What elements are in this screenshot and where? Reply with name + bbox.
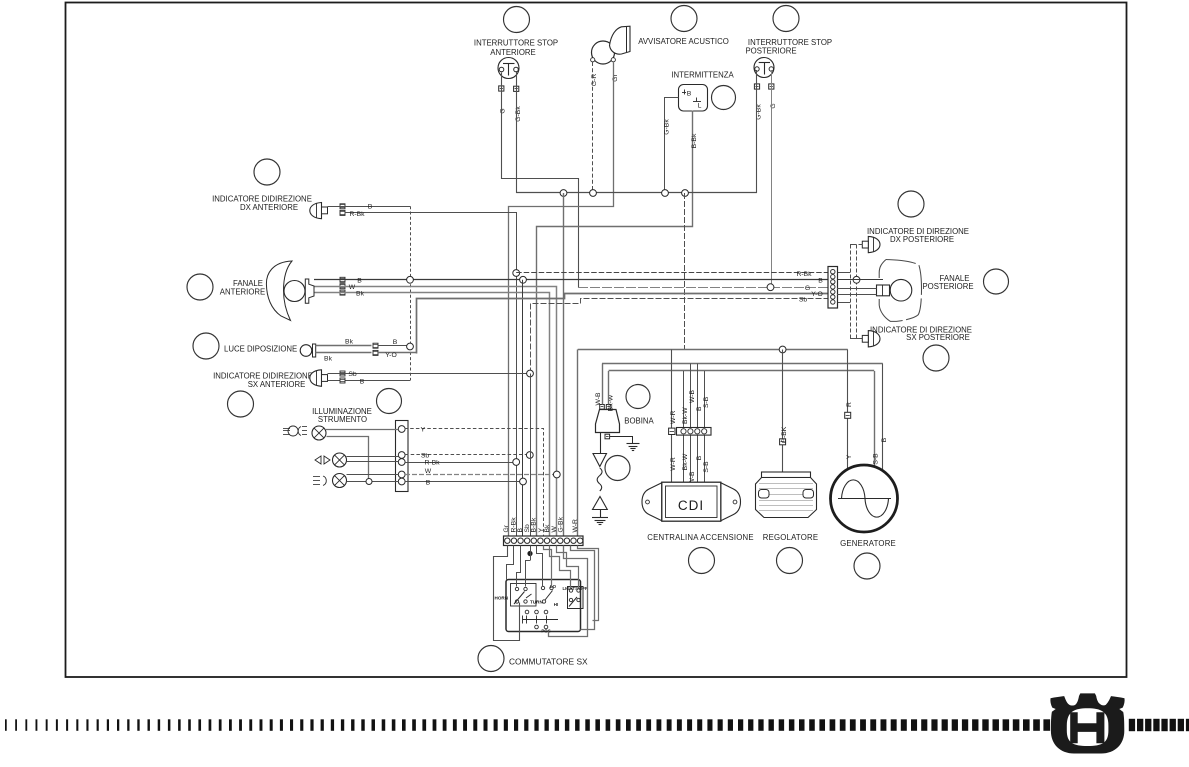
callout balloon (flasher) [712, 86, 736, 110]
terminal hatch W [340, 284, 345, 289]
svg-text:R-Bk: R-Bk [349, 211, 365, 218]
svg-text:G-BK: G-BK [781, 426, 788, 443]
junction dot below connector [527, 551, 532, 556]
svg-text:S-B: S-B [873, 453, 880, 465]
svg-text:B-Bk: B-Bk [691, 133, 698, 148]
junction Sb [527, 370, 534, 377]
wire to DX rear indicator [851, 245, 863, 339]
relay flasher unit box [679, 85, 708, 112]
svg-text:INTERRUTTORE STOP: INTERRUTTORE STOP [474, 39, 558, 48]
svg-text:B: B [517, 528, 524, 533]
ground symbol spark plug [592, 517, 608, 519]
terminal square W-R [669, 428, 675, 434]
tick strip left of logo [5, 719, 7, 731]
wire G-Bk from rear stop switch [756, 70, 758, 193]
indicator lamp 2 [333, 453, 347, 467]
callout balloon (CDI unit) [689, 548, 715, 574]
wire B from DX indicator [328, 206, 411, 208]
junction B col [520, 478, 527, 485]
wire to SX rear indicator [850, 338, 862, 340]
callout balloon (rear LH indicator) [923, 345, 949, 371]
callout balloon (front stop switch) [504, 7, 530, 33]
svg-text:POS: POS [541, 629, 550, 634]
wire Sb trunk [531, 299, 829, 374]
svg-text:Bk: Bk [356, 291, 365, 298]
callout balloon (coil) [626, 385, 650, 409]
rear right indicator symbol [868, 236, 880, 252]
svg-text:B: B [360, 378, 365, 385]
svg-text:R-Bk: R-Bk [424, 460, 440, 467]
wire W-R drop to connector [577, 350, 579, 537]
terminal hatch B [340, 204, 345, 209]
svg-text:B: B [368, 204, 373, 211]
position light symbol [300, 345, 312, 357]
junction G x rear stop G [767, 284, 774, 291]
callout balloon (front RH indicator) [254, 159, 280, 185]
svg-text:B-Bk: B-Bk [531, 517, 538, 532]
svg-text:B: B [426, 479, 431, 486]
left switch horn contact box [511, 584, 537, 607]
tail lamp housing [886, 260, 922, 322]
svg-text:REGOLATORE: REGOLATORE [763, 533, 818, 542]
wire Bk-W drop to CDI [683, 371, 685, 483]
callout balloon (rear stop switch) [773, 6, 799, 32]
wire lamp1 ground [327, 437, 369, 482]
wire Sb drop to connector [530, 374, 532, 537]
svg-text:G-Bk: G-Bk [558, 516, 565, 532]
lights switch box [568, 587, 584, 609]
svg-text:G-Bk: G-Bk [664, 119, 671, 135]
spark plug chain [600, 433, 602, 454]
svg-text:SX ANTERIORE: SX ANTERIORE [248, 380, 306, 389]
svg-text:BOBINA: BOBINA [624, 417, 654, 426]
junction Sb col [526, 452, 533, 459]
wire R to generator [847, 350, 849, 470]
turn icon [315, 456, 330, 464]
svg-text:W-B: W-B [689, 389, 696, 403]
junction W col [553, 471, 560, 478]
svg-text:W-B: W-B [595, 392, 602, 406]
svg-text:HORN: HORN [495, 596, 509, 601]
callout balloon (instrument lighting) [377, 389, 402, 414]
Husqvarna logo [1050, 693, 1124, 753]
svg-text:CENTRALINA ACCENSIONE: CENTRALINA ACCENSIONE [647, 533, 753, 542]
callout balloon (spark plug) [605, 456, 630, 481]
wire W from instrument connector [405, 474, 557, 476]
wire G trunk to rear [578, 287, 828, 289]
junction on G-Bk trunk [682, 190, 689, 197]
wire R-Bk connector to bus [837, 272, 850, 274]
svg-text:B: B [357, 277, 362, 284]
svg-text:Y-O: Y-O [811, 291, 822, 298]
svg-text:ANTERIORE: ANTERIORE [490, 48, 536, 57]
junction on G-Bk trunk [662, 190, 669, 197]
svg-text:R: R [846, 402, 853, 407]
horn symbol [592, 41, 615, 64]
wire lamp2 leads [347, 456, 399, 458]
svg-text:S-B: S-B [703, 461, 710, 473]
terminal hatch B [340, 277, 345, 282]
svg-text:B: B [696, 455, 703, 460]
svg-text:Y: Y [846, 454, 853, 459]
terminal square G-BK [780, 439, 786, 445]
wire B from position light [378, 345, 410, 347]
indicator lamp 1 [312, 426, 326, 440]
junction B-bus x luce [407, 343, 414, 350]
wire B bus vertical [410, 206, 412, 380]
svg-text:CDI: CDI [678, 498, 704, 513]
wire Sb connector to bus [837, 302, 850, 304]
junction B x B-bus [407, 276, 414, 283]
svg-text:G: G [500, 108, 507, 113]
junction R-Bk col [513, 459, 520, 466]
svg-text:INTERMITTENZA: INTERMITTENZA [671, 71, 734, 80]
svg-text:COMMUTATORE SX: COMMUTATORE SX [509, 657, 588, 667]
svg-text:B: B [687, 91, 692, 98]
coil bottom terminal [605, 434, 610, 439]
svg-text:DX ANTERIORE: DX ANTERIORE [240, 203, 298, 212]
wire Bk-W drop to coil [608, 371, 610, 405]
switch SW2 rear stop switch symbol [754, 58, 774, 78]
callout balloon (position light) [193, 333, 219, 359]
svg-text:W: W [425, 468, 432, 475]
svg-text:LUCE DIPOSIZIONE: LUCE DIPOSIZIONE [224, 345, 297, 354]
coil terminal W-B [600, 405, 605, 410]
svg-text:Sb: Sb [421, 453, 430, 460]
svg-text:Y-O: Y-O [385, 352, 396, 359]
switch SW1 front stop switch symbol [498, 58, 519, 79]
wire S-B to generator [874, 371, 876, 467]
wire Sb from SX indicator [328, 373, 531, 375]
svg-text:Bk: Bk [324, 355, 333, 362]
wire R-Bk trunk to rear [516, 272, 828, 274]
wire S-B drop to CDI [704, 371, 706, 483]
terminal hatch Sb [340, 371, 345, 376]
svg-text:Y: Y [421, 427, 426, 434]
wire Y-O to bulb [837, 294, 877, 296]
junction lamp ground [366, 479, 372, 485]
junction B drop [520, 276, 527, 283]
instrument connector strip [396, 421, 409, 492]
wire B-Bk from flasher [537, 111, 693, 537]
wire Gr from horn [509, 63, 614, 537]
callout balloon (regulator) [777, 548, 803, 574]
wire G-Bk drop to connector [563, 193, 565, 536]
wire Y-O from position light [378, 352, 417, 354]
svg-text:W: W [349, 284, 356, 291]
wire G from rear stop switch [771, 70, 773, 287]
junction on G-Bk trunk [590, 190, 597, 197]
wire riser to CDI line [684, 193, 686, 350]
wire B from instrument connector [405, 481, 523, 483]
wire Bk-W/S-B horizontal [609, 370, 875, 372]
coil ground wire [610, 437, 633, 444]
wire W-R drop to CDI [671, 350, 673, 484]
svg-text:HI: HI [554, 602, 558, 607]
rear left indicator symbol [868, 331, 880, 347]
terminal square on wire G-Bk rear [754, 84, 759, 89]
svg-text:GENERATORE: GENERATORE [840, 539, 896, 548]
svg-text:Sb: Sb [348, 371, 357, 378]
wire B from headlamp [314, 279, 828, 281]
callout balloon (horn) [671, 6, 697, 32]
svg-text:Bk-W: Bk-W [682, 453, 689, 470]
wire R-Bk from DX indicator [345, 213, 517, 537]
svg-text:Bk-W: Bk-W [682, 407, 689, 424]
svg-text:Bk: Bk [345, 339, 354, 346]
connector X1 main handlebar connector [504, 536, 584, 546]
callout balloon (front LH indicator) [228, 391, 254, 417]
callout balloon (headlamp) [187, 274, 213, 300]
svg-text:Gr: Gr [503, 524, 510, 532]
terminal square on wire G-Bk [514, 86, 519, 91]
connector pair position light [373, 343, 378, 348]
svg-text:Sb: Sb [799, 297, 808, 304]
wire B to generator [882, 364, 884, 471]
wire B connector to bulb [837, 279, 883, 281]
wire Y from instrument connector [405, 429, 544, 537]
callout balloon (tail lamp) [984, 269, 1009, 294]
terminal square on wire G rear [769, 84, 774, 89]
terminal hatch R-Bk [340, 210, 345, 215]
svg-text:LIGHTS OFF: LIGHTS OFF [563, 586, 588, 591]
svg-text:SX POSTERIORE: SX POSTERIORE [906, 333, 970, 342]
horn switch contacts [515, 587, 518, 590]
front left indicator symbol [310, 370, 322, 387]
wire G-R from horn [592, 62, 594, 193]
svg-text:B: B [393, 339, 398, 346]
svg-text:S-B: S-B [703, 396, 710, 408]
wire lamp1 to connector [326, 429, 398, 431]
wire Bk upper [316, 345, 372, 347]
terminal hatch Bk [340, 290, 345, 295]
svg-text:ANTERIORE: ANTERIORE [220, 288, 266, 297]
rear indicator bus second line [856, 245, 858, 339]
svg-text:G: G [805, 285, 810, 292]
callout balloon (rear RH indicator) [898, 191, 924, 217]
wire G from front stop switch [502, 73, 579, 288]
wire G-Bk trunk [516, 192, 757, 194]
wire G-Bk to regulator [782, 350, 784, 473]
connector X2 CDI connector [677, 428, 712, 436]
wire W-B drop to coil [602, 364, 604, 405]
coil terminal Bk-W [606, 405, 611, 410]
wire Bk from headlamp [315, 293, 550, 537]
terminal square R [845, 412, 851, 418]
svg-text:W-R: W-R [670, 410, 677, 424]
tail lamp bulb [890, 279, 912, 301]
svg-text:DX POSTERIORE: DX POSTERIORE [890, 235, 954, 244]
svg-text:W-R: W-R [572, 519, 579, 533]
wire R-Bk from instrument connector [405, 462, 516, 464]
junction rear B [853, 276, 860, 283]
wire G-Bk from front stop switch [516, 72, 518, 193]
svg-text:Bk: Bk [544, 524, 551, 533]
dimmer contacts [541, 586, 544, 589]
headlamp bulb [284, 281, 305, 302]
svg-text:L: L [698, 103, 702, 110]
svg-text:B: B [696, 406, 703, 411]
left switch outer box [506, 580, 581, 632]
wire Y-O trunk [417, 294, 829, 354]
svg-text:STRUMENTO: STRUMENTO [318, 415, 367, 424]
wire G-Bk from flasher [665, 98, 679, 193]
light selector mechanism [523, 619, 559, 621]
svg-text:B: B [881, 437, 888, 442]
wire W-R horizontal [578, 349, 848, 351]
wires connector to switch box [494, 546, 520, 641]
indicator lamp 3 [333, 474, 347, 488]
wire W from headlamp [315, 287, 557, 537]
coil body [596, 410, 620, 433]
terminal square on wire G [499, 86, 504, 91]
high beam icon [283, 428, 290, 430]
junction on G-Bk trunk [560, 190, 567, 197]
junction R-Bk drop [513, 270, 520, 277]
svg-text:AVVISATORE ACUSTICO: AVVISATORE ACUSTICO [638, 37, 729, 46]
wire B from SX indicator [328, 380, 411, 382]
headlamp housing [266, 261, 292, 321]
tick strip right of logo [1129, 719, 1135, 731]
low beam icon [313, 476, 320, 478]
generator G1 symbol [831, 465, 898, 532]
callout balloon (LH switch) [478, 646, 504, 672]
terminal hatch B [340, 378, 345, 383]
ground symbol coil [627, 443, 640, 445]
svg-text:POSTERIORE: POSTERIORE [745, 47, 796, 56]
callout balloon (generator) [854, 553, 880, 579]
wire G to bulb [837, 288, 877, 290]
junction W-R line x regulator [779, 346, 786, 353]
svg-text:R-Bk: R-Bk [796, 271, 812, 278]
connector X3 rear connector [828, 267, 838, 309]
svg-text:W-R: W-R [670, 457, 677, 471]
wire W-B/B horizontal [602, 363, 883, 365]
CDI unit body [642, 483, 662, 521]
svg-text:POSTERIORE: POSTERIORE [922, 282, 973, 291]
wire W-B drop to CDI [690, 364, 692, 484]
wire lamp3 leads [347, 474, 399, 476]
front right indicator symbol [310, 203, 322, 219]
wire B drop to connector [522, 280, 524, 536]
svg-text:B: B [818, 277, 823, 284]
regulator body [762, 472, 811, 478]
wire Sb from instrument connector [405, 454, 530, 456]
svg-text:TURN: TURN [530, 600, 543, 605]
wire Bk lower [316, 352, 372, 354]
wire B drop to CDI [697, 364, 699, 484]
